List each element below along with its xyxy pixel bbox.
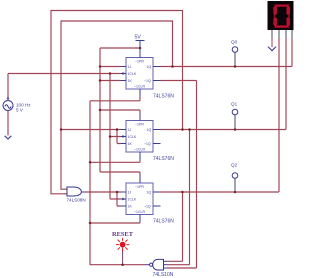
svg-text:~1CLR: ~1CLR <box>134 85 145 89</box>
wire CLR to FF1 CLR <box>90 97 140 101</box>
svg-text:5 V: 5 V <box>16 108 24 113</box>
svg-text:1K: 1K <box>128 79 133 83</box>
wire 5V to FF1 1J <box>100 66 121 68</box>
svg-text:~1Q: ~1Q <box>144 205 151 209</box>
AC source V1 <box>3 97 13 111</box>
wire W1 Q1 net to AND input <box>51 11 183 194</box>
svg-text:1J: 1J <box>128 191 132 195</box>
svg-text:~1Q: ~1Q <box>144 79 151 83</box>
wire NAND output to CLR net <box>90 264 146 266</box>
wire CLR to FF2 CLR <box>90 160 140 162</box>
flip-flop U1C 74LS76N <box>121 175 175 225</box>
wire FF3 1Q branch to NAND input 1 <box>167 192 183 261</box>
svg-text:1Q: 1Q <box>147 191 152 195</box>
wire Q1 horizontal to display pin 3 <box>161 38 287 130</box>
probe Q1 <box>231 102 238 130</box>
probe Q0 <box>231 40 238 67</box>
svg-text:~1CLR: ~1CLR <box>134 148 145 152</box>
wire CLR net vertical <box>89 101 91 265</box>
wire FF2 1Q branch to NAND input 2 <box>167 130 190 265</box>
wire RESET switch stem <box>122 248 124 265</box>
probe Q2 <box>231 163 238 193</box>
wire FF1 ~1Q to NAND input 3 <box>161 81 197 269</box>
svg-text:74LS08N: 74LS08N <box>67 198 86 203</box>
wire Q2 horizontal to display pin 2 <box>161 38 280 192</box>
svg-text:RESET: RESET <box>112 231 134 238</box>
flip-flop U1A 74LS76N <box>121 41 175 100</box>
svg-text:5V: 5V <box>135 35 142 41</box>
svg-text:~1PR: ~1PR <box>135 185 144 189</box>
NAND gate U3A 74LS10N (mirrored, output left) <box>146 259 174 278</box>
wire 5V to FF3 PR <box>100 172 140 175</box>
ground (source) <box>5 136 12 139</box>
seven-segment display U4 <box>268 1 294 38</box>
svg-text:1CLK: 1CLK <box>128 135 137 139</box>
svg-text:1Q: 1Q <box>147 65 152 69</box>
svg-text:Q1: Q1 <box>231 102 238 107</box>
wire clock vertical branch to FF2/FF3 CLK <box>110 74 121 200</box>
ground arrow below display pin 1 <box>271 38 273 47</box>
svg-text:1CLK: 1CLK <box>128 198 137 202</box>
wire W2 Q0 net to FF2 JK and AND input <box>61 21 173 189</box>
svg-text:74LS76N: 74LS76N <box>153 94 174 100</box>
svg-text:74LS10N: 74LS10N <box>153 272 174 278</box>
wire AND output to FF3 J <box>86 191 121 193</box>
svg-text:Q0: Q0 <box>231 40 238 45</box>
svg-text:~1PR: ~1PR <box>135 123 144 127</box>
wire source bottom stem to ground <box>7 111 9 136</box>
wire FF3 J-K tie <box>117 192 121 206</box>
svg-text:74LS76N: 74LS76N <box>153 219 174 225</box>
svg-text:1K: 1K <box>128 142 133 146</box>
wire clock from source V1 to FF1 CLK <box>8 74 121 101</box>
svg-text:1CLK: 1CLK <box>128 72 137 76</box>
flip-flop U1B 74LS76N <box>121 113 175 163</box>
svg-text:~1PR: ~1PR <box>135 60 144 64</box>
wire FF2 J-K tie <box>61 130 121 144</box>
wire 5V to FF1 1K <box>100 80 121 82</box>
svg-text:Q2: Q2 <box>231 163 238 168</box>
RESET switch star <box>116 238 129 251</box>
svg-text:1Q: 1Q <box>147 128 152 132</box>
AND gate U2A 74LS08N <box>67 187 86 203</box>
svg-text:~1CLR: ~1CLR <box>134 210 145 214</box>
wire CLR to FF3 CLR <box>90 222 140 225</box>
svg-text:74LS76N: 74LS76N <box>153 156 174 162</box>
wire 5V to FF2 PR <box>100 110 140 113</box>
svg-text:1J: 1J <box>128 65 132 69</box>
svg-text:1K: 1K <box>128 205 133 209</box>
wire 5V branch left and down <box>100 48 140 172</box>
wire Q0 horizontal to display pin 4 <box>161 38 293 67</box>
svg-text:1J: 1J <box>128 128 132 132</box>
svg-text:~1Q: ~1Q <box>144 142 151 146</box>
display pin stubs <box>272 30 292 38</box>
